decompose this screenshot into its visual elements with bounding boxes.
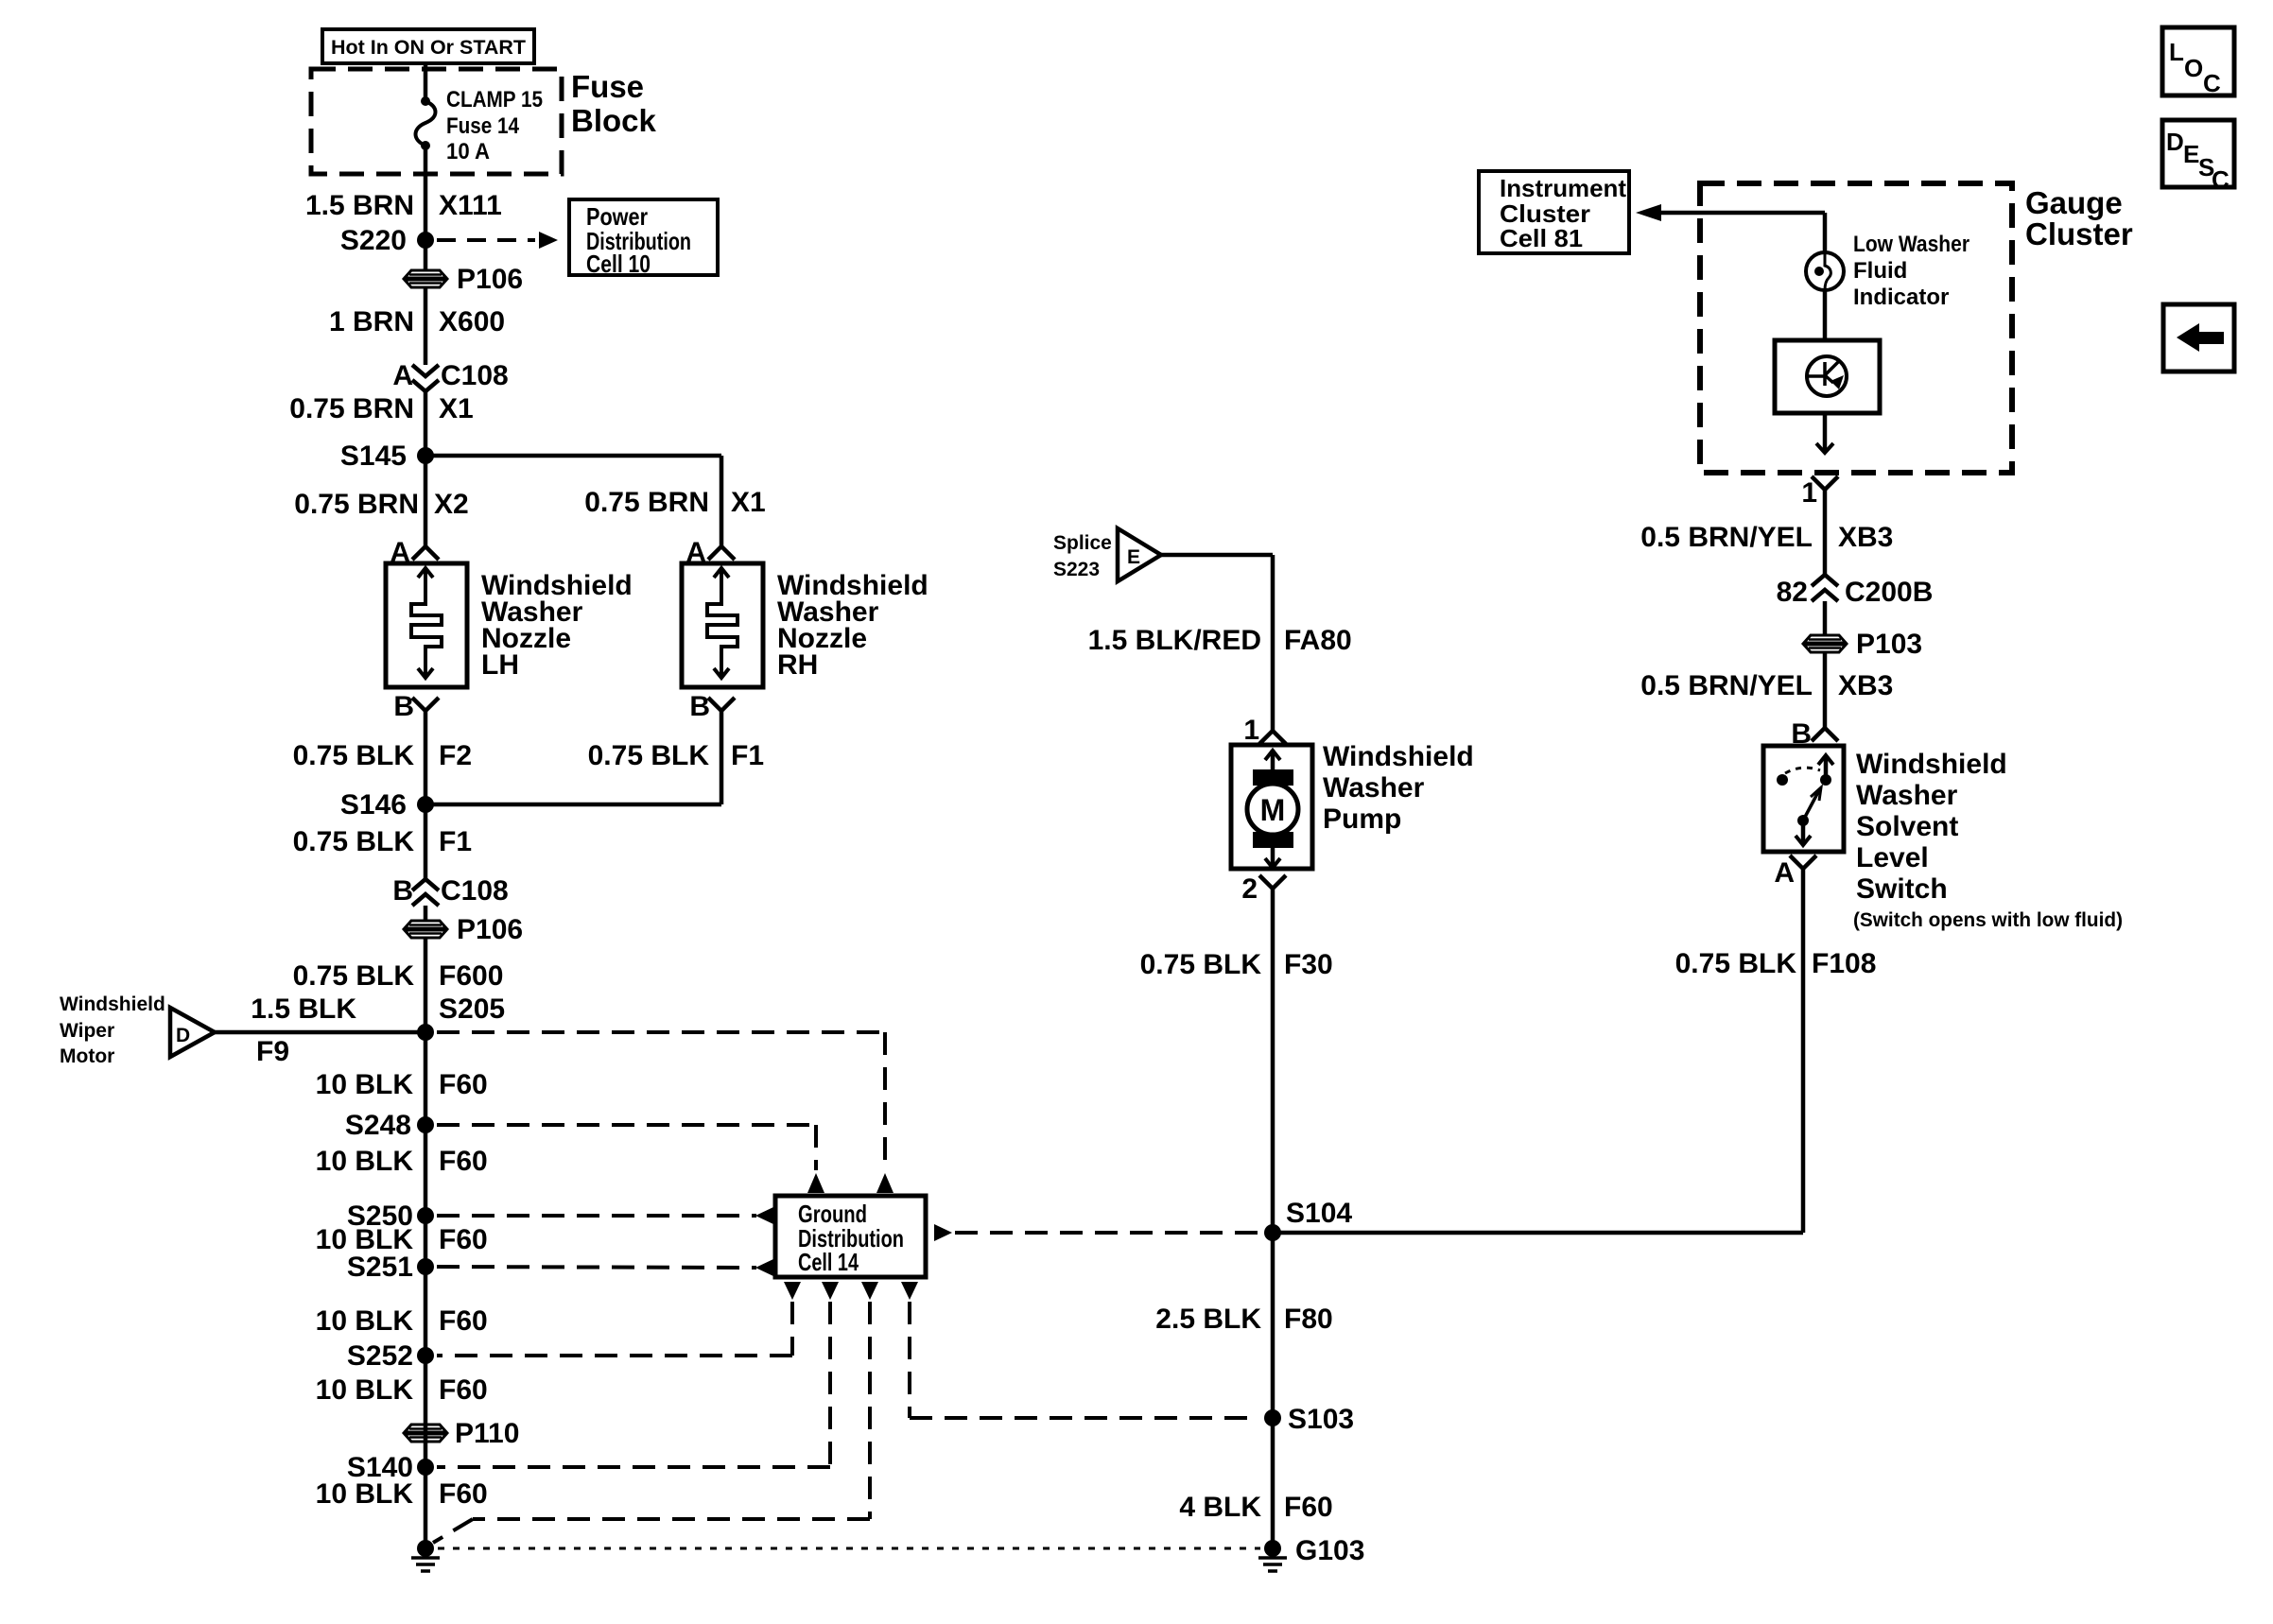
svg-text:LH: LH: [481, 649, 519, 681]
svg-text:0.75 BLK: 0.75 BLK: [293, 960, 415, 992]
svg-text:0.5 BRN/YEL: 0.5 BRN/YEL: [1640, 670, 1813, 701]
svg-text:Fuse 14: Fuse 14: [446, 113, 520, 139]
svg-text:XB3: XB3: [1838, 522, 1893, 553]
windshield washer nozzle LH pin A: [412, 546, 439, 560]
svg-text:F80: F80: [1284, 1304, 1333, 1335]
fuse block dashed outline: [311, 69, 562, 174]
wire: [424, 804, 428, 879]
svg-text:Washer: Washer: [1856, 780, 1958, 811]
svg-text:0.75 BRN: 0.75 BRN: [289, 393, 414, 424]
dashed ground ref wire cell14 to S104: [934, 1224, 952, 1241]
wire RH to S146: [720, 711, 724, 804]
inline connector P106 lower: [404, 921, 447, 938]
windshield washer solvent level switch box: [1763, 746, 1844, 852]
svg-text:10 BLK: 10 BLK: [316, 1478, 414, 1510]
windshield washer pump box: [1231, 745, 1312, 869]
svg-text:Cell 14: Cell 14: [798, 1248, 859, 1276]
inline connector P106: [404, 270, 447, 287]
svg-text:F9: F9: [256, 1036, 289, 1067]
svg-text:Pump: Pump: [1323, 803, 1401, 835]
wire: [1823, 213, 1828, 252]
wire: [424, 391, 428, 456]
solvent level switch pin A: [1790, 855, 1816, 869]
windshield washer nozzle RH box: [682, 563, 763, 687]
svg-text:F60: F60: [439, 1224, 488, 1255]
svg-text:1.5 BRN: 1.5 BRN: [305, 190, 414, 221]
wire: [424, 240, 428, 270]
dashed ground ref wire S205 to cell14: [437, 1030, 885, 1034]
svg-text:S248: S248: [345, 1110, 411, 1141]
nozzle LH pin B: [412, 698, 439, 711]
low washer fluid indicator lamp: [1806, 252, 1844, 290]
svg-text:XB3: XB3: [1838, 670, 1893, 701]
svg-text:10 BLK: 10 BLK: [316, 1374, 414, 1406]
svg-text:S252: S252: [347, 1340, 413, 1372]
splice S251: [417, 1258, 434, 1275]
gauge cluster pin 1: [1812, 476, 1838, 490]
washer pump pin 1: [1259, 731, 1286, 744]
dashed ground ref wire S250 to cell14: [437, 1214, 756, 1218]
splice S104: [1264, 1224, 1281, 1241]
svg-text:S205: S205: [439, 993, 505, 1025]
svg-text:S104: S104: [1286, 1198, 1352, 1229]
svg-text:10 BLK: 10 BLK: [316, 1146, 414, 1177]
svg-text:1: 1: [1801, 477, 1817, 509]
svg-text:F60: F60: [439, 1146, 488, 1177]
wire: [1823, 601, 1828, 635]
dotted ground tie left ground to G103: [438, 1547, 1260, 1550]
svg-text:S223: S223: [1053, 559, 1100, 580]
svg-text:Gauge: Gauge: [2025, 185, 2123, 220]
wire: [1823, 290, 1828, 340]
svg-text:C: C: [2212, 165, 2230, 194]
svg-text:S251: S251: [347, 1252, 413, 1283]
svg-text:P103: P103: [1856, 629, 1922, 660]
off-page triangle D windshield wiper motor: [170, 1008, 215, 1057]
washer pump motor symbol: [1271, 750, 1275, 769]
svg-text:Cell 81: Cell 81: [1500, 224, 1583, 252]
svg-text:CLAMP 15: CLAMP 15: [446, 87, 543, 112]
svg-text:Windshield: Windshield: [1323, 741, 1474, 772]
LOC box: [2162, 27, 2234, 95]
wire pump to S104: [1271, 889, 1275, 1548]
wire D to S205: [215, 1030, 425, 1035]
svg-text:Level: Level: [1856, 842, 1929, 873]
svg-text:0.75 BLK: 0.75 BLK: [1140, 949, 1262, 980]
wire E to pump: [1161, 553, 1273, 558]
fuse CLAMP 15 Fuse 14 10 A: [421, 96, 430, 106]
svg-text:1.5 BLK: 1.5 BLK: [251, 993, 356, 1025]
svg-text:82: 82: [1777, 577, 1808, 608]
wire: [1823, 490, 1828, 575]
svg-text:0.75 BRN: 0.75 BRN: [294, 489, 419, 520]
svg-text:10 BLK: 10 BLK: [316, 1305, 414, 1337]
nozzle RH pin B: [708, 698, 735, 711]
connector C108 pin A: [412, 365, 439, 376]
inline connector P103: [1803, 635, 1847, 652]
svg-text:F60: F60: [1284, 1492, 1333, 1523]
svg-text:F60: F60: [439, 1478, 488, 1510]
splice S248: [417, 1116, 434, 1133]
svg-text:S145: S145: [340, 441, 407, 472]
svg-text:F2: F2: [439, 740, 472, 771]
svg-text:2: 2: [1241, 873, 1258, 905]
svg-text:C108: C108: [441, 360, 509, 391]
svg-text:0.75 BLK: 0.75 BLK: [588, 740, 710, 771]
svg-text:1.5 BLK/RED: 1.5 BLK/RED: [1088, 625, 1261, 656]
DESC box: [2162, 120, 2234, 187]
svg-text:S103: S103: [1288, 1404, 1354, 1435]
ground left (at wiper circuit): [417, 1540, 434, 1557]
svg-text:A: A: [1774, 857, 1795, 889]
splice S250: [417, 1207, 434, 1224]
dashed ground ref wire cell14 to left ground: [861, 1282, 878, 1300]
svg-text:A: A: [392, 360, 413, 391]
splice S205: [417, 1024, 434, 1041]
svg-text:Cluster: Cluster: [2025, 216, 2133, 251]
wire: [424, 1032, 428, 1548]
svg-text:Fluid: Fluid: [1853, 258, 1907, 284]
svg-text:Cell 10: Cell 10: [586, 250, 651, 278]
svg-text:F1: F1: [439, 826, 472, 857]
svg-text:F1: F1: [731, 740, 764, 771]
windshield washer nozzle LH box: [386, 563, 467, 687]
svg-text:B: B: [393, 691, 414, 722]
svg-text:0.75 BLK: 0.75 BLK: [293, 740, 415, 771]
svg-text:P106: P106: [457, 914, 523, 945]
svg-text:1: 1: [1243, 715, 1259, 746]
wire: [424, 906, 428, 921]
svg-text:0.75 BLK: 0.75 BLK: [293, 826, 415, 857]
svg-text:O: O: [2184, 54, 2203, 82]
connector C200B pin 82: [1812, 575, 1838, 586]
wire: [424, 287, 428, 365]
svg-text:S220: S220: [340, 225, 407, 256]
svg-text:X1: X1: [439, 393, 474, 424]
wire to LH nozzle: [424, 456, 428, 546]
svg-text:P106: P106: [457, 264, 523, 295]
svg-text:X111: X111: [439, 190, 502, 221]
svg-text:P110: P110: [455, 1418, 519, 1449]
svg-text:Fuse: Fuse: [571, 69, 644, 104]
wire into fuse: [424, 63, 428, 101]
svg-text:C108: C108: [441, 875, 509, 907]
svg-text:F60: F60: [439, 1069, 488, 1100]
off-page triangle E splice S223: [1118, 528, 1161, 581]
svg-text:RH: RH: [777, 649, 818, 681]
svg-text:Splice: Splice: [1053, 532, 1112, 554]
svg-text:10 A: 10 A: [446, 139, 490, 164]
svg-text:E: E: [2183, 140, 2199, 168]
arrow out of gauge cluster: [1823, 413, 1828, 452]
svg-text:L: L: [2169, 38, 2184, 66]
svg-text:10 BLK: 10 BLK: [316, 1069, 414, 1100]
wire F14 out: [424, 146, 428, 240]
svg-text:Switch: Switch: [1856, 873, 1948, 905]
svg-text:Hot In ON Or START: Hot In ON Or START: [331, 37, 526, 59]
svg-text:Solvent: Solvent: [1856, 811, 1958, 842]
svg-text:Washer: Washer: [1323, 772, 1425, 803]
svg-text:Windshield: Windshield: [60, 993, 165, 1015]
connector C108 pin B: [412, 879, 439, 890]
inline connector P110: [404, 1425, 447, 1442]
svg-text:C: C: [2203, 69, 2221, 97]
wire: [424, 711, 428, 804]
svg-text:F60: F60: [439, 1374, 488, 1406]
svg-text:X600: X600: [439, 306, 505, 337]
nozzle LH internal symbol: [411, 568, 442, 678]
svg-text:B: B: [689, 691, 710, 722]
washer pump pin 2: [1259, 875, 1286, 889]
solvent level switch pin B: [1812, 728, 1838, 741]
windshield washer nozzle RH pin A: [708, 546, 735, 560]
splice S146: [417, 796, 434, 813]
splice S140: [417, 1459, 434, 1476]
dashed ground ref wire S248 to cell14: [437, 1123, 816, 1127]
svg-text:1 BRN: 1 BRN: [329, 306, 414, 337]
ground G103: [1264, 1540, 1281, 1557]
power distribution cell 10 box: [569, 199, 718, 275]
svg-text:G103: G103: [1295, 1535, 1364, 1566]
svg-text:0.5 BRN/YEL: 0.5 BRN/YEL: [1640, 522, 1813, 553]
svg-text:F60: F60: [439, 1305, 488, 1337]
svg-text:Wiper: Wiper: [60, 1020, 114, 1042]
wire: [424, 938, 428, 1032]
svg-text:M: M: [1260, 793, 1286, 827]
nozzle RH internal symbol: [707, 568, 737, 678]
svg-text:C200B: C200B: [1845, 577, 1933, 608]
wire branch to RH nozzle: [425, 454, 721, 458]
splice S220: [417, 232, 434, 249]
svg-text:F30: F30: [1284, 949, 1333, 980]
ground distribution cell 14 box: [775, 1196, 926, 1277]
svg-text:Block: Block: [571, 103, 657, 138]
svg-text:Motor: Motor: [60, 1045, 114, 1067]
svg-text:S146: S146: [340, 789, 407, 821]
svg-text:Low Washer: Low Washer: [1853, 232, 1969, 257]
svg-text:D: D: [2166, 128, 2184, 156]
svg-text:FA80: FA80: [1284, 625, 1352, 656]
gauge cluster dashed outline: [1700, 183, 2012, 473]
dashed ground ref wire S251 to cell14: [437, 1267, 756, 1268]
splice S252: [417, 1347, 434, 1364]
svg-text:Indicator: Indicator: [1853, 285, 1949, 310]
svg-text:D: D: [176, 1025, 190, 1046]
back arrow box: [2163, 304, 2234, 371]
svg-text:0.75 BRN: 0.75 BRN: [584, 487, 709, 518]
dashed ground ref wire cell14 to S103: [901, 1282, 918, 1300]
wire: [1823, 652, 1828, 728]
instrument cluster cell 81 box: [1479, 171, 1629, 253]
splice S145: [417, 447, 434, 464]
node Hot In ON Or START feed box: [322, 29, 534, 63]
svg-text:E: E: [1127, 546, 1140, 568]
svg-text:Windshield: Windshield: [1856, 749, 2007, 780]
gauge internal symbol: [1807, 356, 1847, 396]
wire S104 to solvent switch: [1273, 1231, 1803, 1235]
splice S103: [1264, 1409, 1281, 1426]
svg-text:B: B: [392, 875, 413, 907]
svg-text:0.75 BLK: 0.75 BLK: [1675, 948, 1797, 979]
arrow wire gauge cluster to instrument cluster: [1636, 204, 1661, 221]
switch internal symbol: [1824, 757, 1829, 780]
svg-text:X2: X2: [434, 489, 469, 520]
svg-text:Instrument: Instrument: [1500, 174, 1626, 202]
svg-text:F108: F108: [1812, 948, 1876, 979]
dashed arrow to power distribution: [437, 238, 535, 242]
svg-text:(Switch opens with low fluid): (Switch opens with low fluid): [1853, 909, 2123, 931]
svg-text:2.5 BLK: 2.5 BLK: [1155, 1304, 1261, 1335]
gauge box: [1775, 340, 1880, 413]
dashed ground ref wire cell14 to S140: [822, 1282, 839, 1300]
svg-text:F600: F600: [439, 960, 503, 992]
svg-text:X1: X1: [731, 487, 766, 518]
dashed ground ref wire cell14 to S252: [784, 1282, 801, 1300]
svg-text:4 BLK: 4 BLK: [1179, 1492, 1261, 1523]
